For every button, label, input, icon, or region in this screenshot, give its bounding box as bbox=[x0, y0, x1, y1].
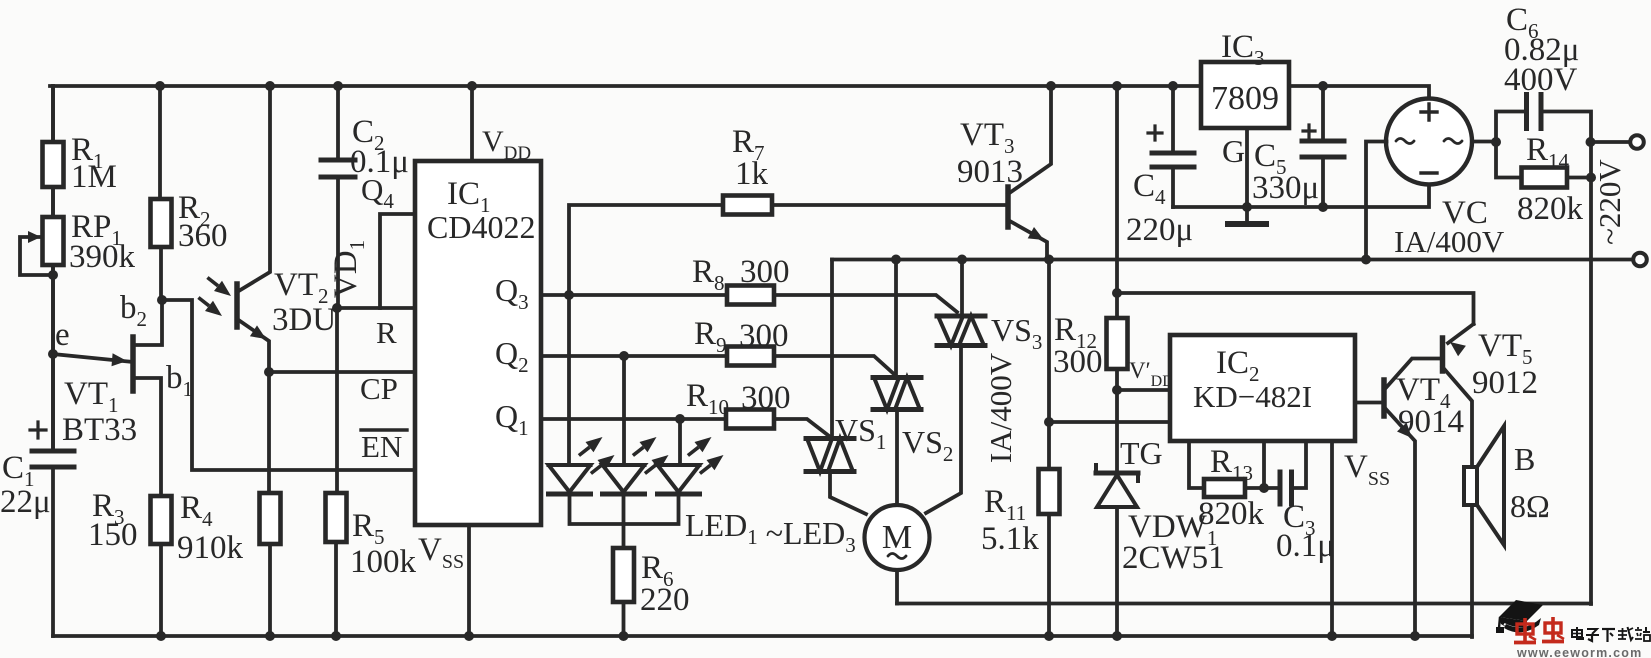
svg-text:300: 300 bbox=[740, 254, 790, 290]
resistor R10 bbox=[686, 378, 829, 436]
speaker B 8ohm bbox=[1464, 426, 1550, 637]
svg-text:BT33: BT33 bbox=[62, 412, 137, 448]
wire TG bbox=[1044, 417, 1170, 471]
resistor R4 bbox=[177, 372, 281, 636]
resistor R8 bbox=[692, 254, 957, 312]
svg-text:CD4022: CD4022 bbox=[427, 209, 535, 245]
label triac rating 1A/400V bbox=[983, 352, 1018, 463]
svg-text:1M: 1M bbox=[71, 159, 117, 195]
LED LED3 bbox=[658, 419, 724, 494]
pin Vss of IC1 bbox=[418, 525, 469, 636]
wire VT5 emitter supply bbox=[1112, 288, 1474, 324]
transistor VT4 9014 bbox=[1355, 359, 1464, 637]
wire left edge bbox=[51, 86, 55, 636]
resistor R13 820k bbox=[1189, 441, 1269, 532]
bridge rectifier VC bbox=[1386, 99, 1505, 260]
wire RP1 to e node bbox=[48, 275, 58, 359]
svg-text:220μ: 220μ bbox=[1126, 212, 1193, 248]
svg-text:R: R bbox=[376, 315, 397, 350]
svg-text:330μ: 330μ bbox=[1252, 170, 1319, 206]
svg-text:KD−482I: KD−482I bbox=[1193, 379, 1312, 414]
resistor R7 bbox=[723, 124, 1006, 215]
node VDD' junction bbox=[1112, 369, 1122, 473]
svg-text:M: M bbox=[882, 519, 912, 556]
wire AC line (~220V upper return) bbox=[832, 255, 1633, 265]
resistor R3 bbox=[88, 488, 172, 636]
svg-text:150: 150 bbox=[88, 517, 138, 553]
LED LED1 bbox=[549, 295, 615, 494]
node CP junction bbox=[264, 367, 274, 377]
node R-pin junction bbox=[332, 303, 342, 313]
svg-text:9014: 9014 bbox=[1398, 404, 1464, 440]
unijunction transistor VT1 BT33 bbox=[53, 290, 193, 496]
ground wire DC minus bbox=[1173, 186, 1429, 212]
svg-text:G: G bbox=[1222, 133, 1245, 169]
wire CP to IC1 bbox=[269, 370, 415, 374]
triac VS1 bbox=[806, 260, 886, 515]
capacitor C2 bbox=[321, 86, 409, 308]
svg-text:CP: CP bbox=[360, 371, 398, 406]
svg-text:400V: 400V bbox=[1504, 62, 1578, 98]
pin VDD of IC1 bbox=[472, 86, 531, 164]
svg-text:1k: 1k bbox=[735, 156, 769, 192]
wire right edge down bbox=[1589, 142, 1593, 604]
triac VS2 bbox=[873, 260, 953, 506]
svg-text:0.1μ: 0.1μ bbox=[1276, 528, 1335, 564]
watermark eeworm logo bbox=[1496, 600, 1650, 658]
wire VDD' to IC2 bbox=[1117, 358, 1174, 390]
svg-text:300: 300 bbox=[739, 318, 789, 354]
resistor R1 bbox=[43, 86, 117, 195]
pin label Q3 bbox=[495, 272, 529, 314]
IC IC2 KD-482I box bbox=[1170, 335, 1355, 441]
svg-text:2CW51: 2CW51 bbox=[1122, 540, 1225, 576]
wire VC right bbox=[1472, 137, 1501, 147]
svg-text:220: 220 bbox=[640, 582, 690, 618]
terminal AC 1 bbox=[1591, 135, 1644, 149]
capacitor C6 0.82u 400V bbox=[1496, 2, 1596, 147]
svg-text:IA/400V: IA/400V bbox=[1394, 224, 1505, 259]
ground symbol for IC3 G pin bbox=[1222, 128, 1266, 224]
svg-text:820k: 820k bbox=[1198, 496, 1265, 532]
resistor R2 bbox=[151, 86, 228, 305]
pin label EN bbox=[361, 429, 407, 464]
pin label CP bbox=[360, 371, 398, 406]
svg-text:8Ω: 8Ω bbox=[1510, 488, 1550, 524]
svg-text:820k: 820k bbox=[1517, 191, 1584, 227]
resistor R12 300 bbox=[1053, 86, 1128, 380]
terminal AC 2 bbox=[1633, 253, 1647, 267]
pin label R bbox=[376, 315, 397, 350]
IC IC3 7809 bbox=[1201, 29, 1289, 128]
pin label Q2 bbox=[495, 335, 529, 377]
transistor VT5 9012 bbox=[1443, 324, 1539, 467]
wire top rail right segment (IC3 to VC) bbox=[1289, 81, 1429, 99]
svg-text:100k: 100k bbox=[350, 544, 417, 580]
pin Vss of IC2 bbox=[1332, 441, 1390, 636]
resistor R14 820k bbox=[1496, 132, 1596, 227]
pin label Q1 bbox=[495, 398, 529, 440]
svg-text:9013: 9013 bbox=[957, 154, 1023, 190]
svg-text:www.eeworm.com: www.eeworm.com bbox=[1516, 646, 1642, 658]
zener diode VDW1 2CW51 bbox=[1096, 465, 1225, 636]
capacitor C3 0.1u bbox=[1264, 441, 1335, 564]
motor M bbox=[865, 505, 930, 604]
triac VS3 bbox=[926, 260, 1042, 514]
transistor VT3 9013 bbox=[957, 86, 1051, 260]
capacitor C5 330u bbox=[1252, 86, 1344, 207]
svg-text:360: 360 bbox=[178, 218, 228, 254]
resistor R9 bbox=[694, 316, 895, 375]
label ~220V bbox=[1592, 159, 1627, 245]
svg-text:~220V: ~220V bbox=[1592, 159, 1627, 245]
svg-text:TG: TG bbox=[1120, 435, 1163, 471]
svg-text:300: 300 bbox=[1053, 344, 1103, 380]
capacitor C4 220u bbox=[1126, 86, 1194, 248]
wire LED cathodes common bbox=[570, 494, 679, 524]
svg-text:e: e bbox=[55, 317, 70, 353]
wire top 9V rail bbox=[50, 81, 1201, 91]
wire bottom ground rail bbox=[53, 631, 1472, 641]
resistor R6 bbox=[613, 524, 690, 636]
wire Q3 output bbox=[541, 290, 727, 300]
potentiometer RP1 bbox=[20, 187, 136, 280]
svg-text:EN: EN bbox=[361, 429, 402, 464]
wire R pin bbox=[337, 306, 415, 310]
wire b2 to EN bbox=[162, 300, 415, 470]
IC U1 CD4022 box bbox=[415, 161, 541, 525]
wire Q2 output bbox=[541, 351, 727, 361]
svg-text:22μ: 22μ bbox=[0, 484, 51, 520]
wire Q3 to R7 bbox=[569, 205, 723, 295]
svg-text:9012: 9012 bbox=[1472, 365, 1538, 401]
wire Q1 output bbox=[541, 414, 726, 424]
pin Q4 and diode VD1 feedback bbox=[328, 172, 415, 308]
LED LED2 bbox=[603, 356, 669, 494]
svg-text:390k: 390k bbox=[69, 239, 136, 275]
svg-text:IA/400V: IA/400V bbox=[983, 352, 1018, 463]
svg-text:5.1k: 5.1k bbox=[981, 521, 1039, 557]
svg-text:3DU: 3DU bbox=[272, 302, 336, 338]
svg-text:7809: 7809 bbox=[1211, 80, 1279, 117]
svg-text:910k: 910k bbox=[177, 530, 244, 566]
svg-text:300: 300 bbox=[741, 380, 791, 416]
resistor R11 5.1k bbox=[981, 260, 1060, 637]
svg-text:B: B bbox=[1514, 441, 1535, 477]
label LED1~LED3 bbox=[685, 507, 856, 557]
wire VC left to AC line bbox=[1366, 142, 1387, 260]
resistor R5 bbox=[326, 308, 417, 636]
phototransistor VT2 3DU bbox=[198, 86, 336, 372]
capacitor C1 bbox=[0, 354, 74, 520]
wire motor/speaker AC return bbox=[897, 602, 1591, 606]
